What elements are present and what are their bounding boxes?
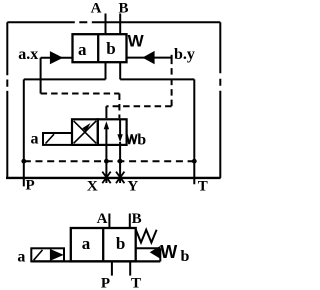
box2 up arrowhead bbox=[104, 121, 109, 129]
pilot triangle bbox=[150, 246, 161, 259]
svg-text:X: X bbox=[87, 179, 98, 195]
wire a.x drop vertical bbox=[40, 58, 42, 94]
bottom valve divider bbox=[102, 228, 104, 261]
svg-text:a: a bbox=[82, 234, 91, 253]
svg-text:P: P bbox=[26, 178, 35, 194]
b.y line end tick bbox=[171, 55, 173, 59]
svg-text:Y: Y bbox=[127, 179, 138, 195]
subplate line bbox=[6, 177, 221, 179]
pilot valve spring W bbox=[127, 134, 137, 144]
wire a.x dashed vertical to pilot valve bbox=[118, 94, 120, 119]
wire B port down from valve bbox=[119, 62, 121, 79]
svg-text:T: T bbox=[131, 276, 141, 290]
enclosure top chain line bbox=[7, 21, 220, 23]
box2 down arrow line / Y port stub bbox=[119, 119, 121, 137]
svg-text:a: a bbox=[17, 249, 25, 266]
junction dot T bbox=[192, 159, 197, 164]
svg-text:b: b bbox=[137, 132, 146, 149]
pilot valve box2 parallel bbox=[98, 119, 127, 145]
svg-text:b: b bbox=[116, 234, 125, 253]
svg-text:b: b bbox=[181, 248, 190, 265]
wire right routing horizontal bbox=[120, 78, 194, 80]
enclosure left chain line bbox=[6, 22, 8, 178]
svg-text:a: a bbox=[78, 40, 87, 59]
main spool valve body bbox=[73, 34, 127, 62]
svg-text:P: P bbox=[101, 276, 110, 290]
wire A port down from valve bbox=[105, 62, 107, 79]
plugged port X asterisk bbox=[102, 172, 110, 184]
wire P line vertical bbox=[23, 79, 25, 186]
box2 down arrowhead bbox=[117, 134, 122, 142]
pilot box right edge bbox=[159, 248, 161, 261]
svg-text:W: W bbox=[128, 31, 145, 50]
solenoid diagonal bottom bbox=[34, 250, 43, 260]
wire T stub bottom bbox=[129, 261, 131, 275]
svg-text:A: A bbox=[91, 1, 102, 17]
box2 up arrow line / X port stub bbox=[105, 125, 107, 183]
enclosure right chain line bbox=[219, 22, 221, 178]
solenoid diagonal bbox=[46, 134, 55, 143]
wire a.x dashed horizontal bbox=[41, 93, 120, 95]
box1 arrowhead bbox=[82, 123, 90, 132]
wire stub into pilot valve P port bbox=[105, 106, 107, 118]
a.x arrowhead bbox=[50, 51, 63, 64]
junction dot P bbox=[21, 159, 26, 164]
box1 diagonal TL-BR bbox=[74, 121, 97, 143]
b.y arrowhead bbox=[142, 51, 154, 64]
svg-text:a.x: a.x bbox=[18, 46, 38, 63]
wire P stub bottom bbox=[111, 261, 113, 275]
wire left routing horizontal bbox=[24, 78, 106, 80]
wire b.y pilot line bbox=[127, 57, 172, 59]
wire b.y dashed vertical bbox=[171, 58, 173, 107]
main spool divider bbox=[97, 34, 99, 62]
pilot valve solenoid box bbox=[43, 133, 72, 145]
solenoid arrowhead bottom bbox=[50, 249, 64, 261]
wire B line into valve top bbox=[119, 14, 121, 35]
wire a.x pilot line bbox=[41, 57, 73, 59]
solenoid box bottom bbox=[31, 248, 64, 261]
svg-text:T: T bbox=[198, 178, 208, 194]
svg-text:A: A bbox=[97, 211, 108, 227]
svg-text:B: B bbox=[132, 211, 142, 227]
plugged port Y asterisk bbox=[116, 172, 124, 184]
box1 diagonal BL-TR bbox=[74, 121, 97, 143]
wire B stub bottom bbox=[129, 214, 131, 229]
wire A line into valve top bbox=[105, 14, 107, 35]
svg-text:a: a bbox=[31, 131, 39, 148]
Y port stub below valve bbox=[119, 142, 121, 183]
bottom valve body bbox=[71, 228, 136, 261]
wire A stub bottom bbox=[108, 214, 110, 229]
svg-text:b: b bbox=[106, 39, 115, 58]
svg-text:W: W bbox=[160, 242, 177, 262]
junction dot Y bbox=[118, 159, 123, 164]
svg-text:b.y: b.y bbox=[174, 46, 195, 63]
pilot box top line bbox=[136, 247, 161, 249]
pilot valve box1 crossed bbox=[72, 119, 98, 145]
wire b.y dashed horizontal bbox=[106, 105, 171, 107]
junction dot X bbox=[104, 159, 109, 164]
valve bottom extension line bbox=[31, 260, 160, 262]
wire T line vertical bbox=[193, 79, 195, 184]
spring zigzag top right bbox=[136, 229, 157, 242]
dashed drain line bbox=[24, 160, 195, 162]
